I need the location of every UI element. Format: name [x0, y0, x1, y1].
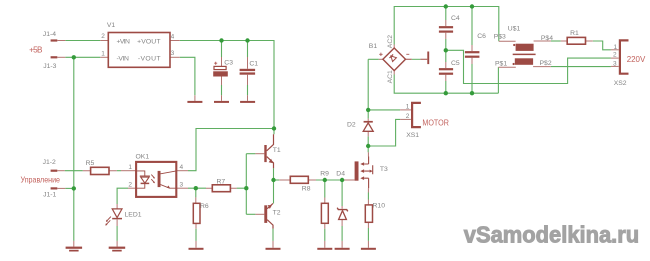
svg-text:P$4: P$4: [541, 35, 553, 42]
ground R10: [361, 248, 376, 250]
svg-text:4: 4: [171, 33, 175, 40]
svg-text:1: 1: [406, 103, 410, 110]
wire R5 to OK1 pin1: [117, 170, 121, 172]
transformer U$1 core: [513, 53, 536, 55]
bridge B1 minus sign: [406, 53, 409, 55]
wire B1 bottom to rail: [394, 75, 498, 94]
pin J1-4 lead: [57, 40, 65, 42]
ground R9: [317, 248, 332, 250]
svg-text:+VIN: +VIN: [117, 38, 130, 45]
svg-text:R9: R9: [320, 170, 329, 177]
mosfet T3: [355, 161, 359, 180]
ground R6: [189, 248, 204, 250]
wire OK1 pin4 branch: [188, 129, 274, 171]
pin OK1 pin2 lead: [128, 187, 136, 189]
node C6 bottom junction: [470, 91, 474, 95]
pin J1-1 lead: [57, 187, 65, 189]
svg-text:T3: T3: [380, 166, 388, 173]
capacitor C3 polarized: [214, 66, 226, 69]
pin B1 bottom lead: [393, 71, 395, 75]
pin R7 leads: [206, 187, 237, 189]
pin XS2 pin1 lead: [611, 49, 619, 51]
zener diode D4: [337, 208, 348, 212]
svg-text:+5В: +5В: [29, 46, 43, 55]
pin OK1 pin4 lead: [176, 170, 188, 172]
regulator V1 box: [108, 33, 170, 68]
svg-text:2: 2: [101, 33, 105, 40]
pin gnd stub R10: [367, 241, 369, 248]
node T1 emitter junction: [271, 178, 275, 182]
wire C4 column: [445, 7, 447, 51]
wire J1-4 to V1 pin2: [65, 40, 100, 42]
wire OK1 pin2 to LED1: [117, 188, 128, 204]
pin T2 base lead: [255, 213, 264, 215]
wire V1 +VOUT to T1 collector: [180, 41, 274, 135]
pin R9 leads: [324, 198, 326, 229]
wire C5 column: [445, 50, 447, 93]
svg-text:1: 1: [101, 50, 105, 57]
pin R6 leads: [195, 197, 197, 228]
wire R9 column: [324, 180, 326, 198]
connector J1-3 stub: [51, 56, 58, 58]
ground rail 2bar: [66, 247, 83, 249]
ground LED1 2bar: [109, 247, 126, 249]
pin gnd stub C1: [247, 95, 249, 101]
diode D2: [364, 121, 373, 123]
optocoupler OK1 box: [136, 162, 176, 197]
node C6 top junction: [470, 4, 474, 8]
pin R5 leads: [83, 170, 117, 172]
svg-text:vSamodelkina.ru: vSamodelkina.ru: [464, 222, 639, 248]
wire T3 source to R10: [367, 193, 369, 200]
svg-text:C4: C4: [451, 15, 460, 22]
ground under C3: [214, 101, 229, 103]
wire C6 column: [471, 7, 473, 94]
capacitor C6: [465, 51, 480, 53]
svg-text:MOTOR: MOTOR: [422, 119, 449, 128]
pin V1 pin4: [170, 40, 180, 42]
pin T3 gate lead: [344, 179, 355, 181]
node C3 top junction: [219, 38, 223, 42]
node D2 anode junction: [366, 144, 370, 148]
wire B1 top to rail: [394, 7, 499, 45]
wire R10 bottom: [367, 228, 369, 241]
wire D4 column: [341, 180, 343, 206]
pin gnd stub T2: [272, 241, 274, 248]
svg-text:C3: C3: [224, 60, 233, 67]
pin B1 right lead: [406, 58, 428, 60]
node C1 top junction: [245, 38, 249, 42]
svg-text:3: 3: [613, 61, 617, 68]
svg-text:T2: T2: [273, 210, 281, 217]
wire C4C5 midpoint to XS2 pin2: [446, 50, 611, 83]
transformer U$1 primary coil: [516, 44, 534, 51]
svg-text:D4: D4: [336, 170, 345, 177]
svg-text:2: 2: [406, 113, 410, 120]
svg-text:+VOUT: +VOUT: [137, 38, 160, 45]
resistor R5: [91, 167, 109, 174]
bridge B1 right terminator bar: [427, 52, 429, 65]
pin gnd stub D4: [341, 241, 343, 248]
pin OK1 pin3 lead: [176, 187, 188, 189]
pin gnd stub LED1: [116, 241, 118, 247]
bridge B1 diamond: [383, 48, 406, 71]
pin V1 pin1: [100, 56, 108, 58]
svg-text:LED1: LED1: [125, 211, 142, 218]
svg-text:XS1: XS1: [406, 132, 419, 139]
pin C5 leads: [445, 62, 447, 81]
svg-text:220V: 220V: [627, 55, 646, 64]
svg-text:3: 3: [171, 50, 175, 57]
svg-text:-VIN: -VIN: [117, 55, 129, 62]
svg-text:J1-2: J1-2: [43, 159, 56, 166]
pin XS1 pin1 lead: [400, 109, 411, 111]
svg-text:AC2: AC2: [387, 35, 394, 48]
node C5 bottom junction: [444, 91, 448, 95]
pin D4 leads: [341, 206, 343, 226]
svg-text:J1-4: J1-4: [43, 31, 56, 38]
pin XS1 pin2 lead: [400, 118, 411, 120]
optocoupler OK1 transistor: [158, 171, 161, 187]
svg-text:1: 1: [614, 44, 618, 51]
wire J1-3 to V1 pin1: [65, 56, 100, 58]
svg-text:C6: C6: [477, 33, 486, 40]
pin C3 top: [221, 57, 223, 85]
pin XS2 pin3 lead: [611, 65, 619, 67]
transistor T2: [264, 205, 267, 223]
pin LED1 leads: [116, 204, 118, 226]
svg-text:1: 1: [128, 164, 132, 171]
svg-text:C5: C5: [451, 60, 460, 67]
pin J1-3 lead: [57, 56, 65, 58]
svg-text:D2: D2: [347, 122, 356, 129]
svg-text:R5: R5: [86, 160, 95, 167]
bridge B1 plus sign: [379, 53, 382, 56]
pin P$4 lead: [534, 40, 551, 42]
svg-text:-VOUT: -VOUT: [138, 55, 161, 62]
wire ground rail left: [73, 57, 75, 241]
node R6 top junction: [194, 186, 198, 190]
svg-text:R7: R7: [217, 178, 226, 185]
ground under C1: [240, 101, 255, 103]
node T1 T2 base junction: [244, 186, 248, 190]
wire T3 drain / D2 / XS1 column: [367, 59, 369, 118]
pin R10 leads: [367, 200, 369, 229]
pin OK1 pin1 lead: [121, 170, 136, 172]
node J1-1 rail junction: [72, 186, 76, 190]
resistor R6: [193, 203, 200, 223]
pin B1 left lead: [379, 58, 383, 60]
resistor R8: [290, 176, 308, 183]
svg-text:OK1: OK1: [136, 154, 150, 161]
svg-text:P$1: P$1: [495, 60, 507, 67]
node J1-3 rail junction: [72, 55, 76, 59]
wire J1-2 to R5: [65, 170, 83, 172]
optocoupler OK1 led: [136, 171, 150, 188]
wire J1-1 to rail: [65, 187, 74, 189]
wire OK1 pin3 to R7: [188, 187, 206, 189]
ground under V1 pin3: [187, 101, 202, 103]
pin C4 leads: [445, 20, 447, 39]
svg-text:XS2: XS2: [614, 80, 627, 87]
pin P$2 lead: [533, 66, 551, 68]
svg-text:C1: C1: [249, 60, 258, 67]
wire to XS1 pin2: [368, 119, 400, 146]
svg-text:AC1: AC1: [387, 70, 394, 83]
svg-text:J1-1: J1-1: [43, 192, 56, 199]
wire P$1 vertical: [497, 67, 499, 93]
svg-text:U$1: U$1: [508, 26, 521, 33]
connector XS2 bracket: [620, 40, 629, 73]
svg-text:R6: R6: [200, 203, 209, 210]
wire C3 column: [221, 41, 223, 58]
wire P$4 to R1: [551, 40, 561, 42]
resistor R9: [321, 203, 328, 223]
resistor R10: [365, 205, 372, 222]
capacitor C5: [439, 68, 453, 70]
resistor R7: [212, 185, 230, 192]
ground T2: [266, 248, 281, 250]
svg-text:B1: B1: [369, 43, 378, 50]
svg-text:R8: R8: [302, 186, 311, 193]
pin C1 leads: [247, 57, 249, 85]
wire V1 -VOUT to ground: [180, 57, 195, 95]
pin B1 top lead: [393, 45, 395, 49]
pin T1 base lead: [255, 153, 264, 155]
LED LED1: [112, 209, 122, 218]
transistor T1: [264, 145, 266, 162]
svg-text:3: 3: [180, 182, 184, 189]
pin D2 leads: [367, 119, 369, 137]
node D4 top junction: [340, 178, 344, 182]
pin R1 leads: [561, 40, 593, 42]
svg-text:P$3: P$3: [494, 33, 506, 40]
svg-text:2: 2: [128, 182, 132, 189]
node C4 top junction: [444, 4, 448, 8]
svg-text:Управление: Управление: [21, 176, 61, 185]
wire R8 to T3 gate: [316, 179, 344, 181]
connector XS1 bracket: [412, 103, 421, 127]
node C4 C5 midpoint junction: [444, 48, 448, 52]
transformer U$1 secondary coil: [515, 58, 533, 65]
wire LED1 to ground: [116, 226, 118, 241]
capacitor C1: [240, 69, 256, 71]
node T1 collector junction: [272, 126, 276, 130]
connector J1-2 stub: [51, 170, 58, 172]
resistor R1: [567, 37, 585, 44]
wire R6 top: [195, 188, 197, 197]
svg-text:R10: R10: [373, 203, 386, 210]
optocoupler OK1 arrows: [151, 175, 154, 183]
wire P$2 to XS2 pin3: [551, 66, 611, 68]
svg-text:T1: T1: [273, 147, 281, 154]
node R9 top junction: [323, 178, 327, 182]
pin gnd stub R9: [324, 241, 326, 248]
svg-text:J1-3: J1-3: [43, 63, 56, 70]
wire R7 to T1 T2 bases: [237, 187, 247, 189]
svg-text:P$2: P$2: [540, 60, 552, 67]
pin R8 leads: [279, 179, 316, 181]
wire R6 bottom: [195, 229, 197, 241]
pin C6 leads: [471, 45, 473, 64]
svg-text:2: 2: [613, 52, 617, 59]
svg-text:R1: R1: [570, 30, 579, 37]
wire T1 emitter to R8 row: [273, 168, 275, 203]
wire R1 to XS2 pin1: [593, 41, 611, 50]
wire C1 column: [247, 41, 249, 58]
wire T2 emitter-ground: [272, 229, 274, 241]
svg-text:V1: V1: [107, 22, 116, 29]
node XS1 pin1 junction: [366, 108, 370, 112]
LED LED1 arrows: [106, 217, 111, 226]
ground D4: [335, 248, 350, 250]
pin P$3 lead: [499, 40, 516, 42]
pin gnd stub R6: [195, 241, 197, 248]
pin V1 pin2: [100, 40, 108, 42]
wire to XS1 pin1: [368, 109, 400, 111]
pin T3 drain source leads: [367, 152, 369, 192]
capacitor C4: [439, 26, 453, 28]
connector J1-1 stub: [51, 187, 58, 189]
pin gnd stub V1pin3: [194, 95, 196, 101]
pin gnd stub C3: [221, 95, 223, 101]
pin P$1 lead: [498, 66, 515, 68]
pin V1 pin3: [170, 56, 180, 58]
pin XS2 pin2 lead: [611, 57, 619, 59]
pin J1-2 lead: [57, 170, 64, 172]
connector J1-4 stub: [51, 39, 58, 41]
pin gnd stub rail: [73, 241, 75, 247]
svg-text:4: 4: [180, 164, 184, 171]
